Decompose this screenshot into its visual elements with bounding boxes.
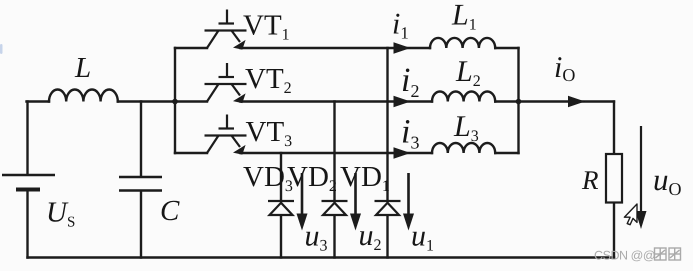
wire output horizontal (519, 100, 615, 102)
wire from L to VT2 lead (118, 100, 207, 102)
wire phase1 output (241, 47, 431, 49)
wire VD3 branch upper (280, 153, 282, 201)
wire right bus vertical (517, 48, 519, 153)
wire bottom bus (28, 256, 615, 258)
wire VT3 left lead (175, 152, 207, 154)
wire VT1 left lead (175, 47, 207, 49)
current arrow i1 (394, 42, 411, 54)
svg-text:R: R (581, 165, 599, 195)
wire VD2 branch lower (333, 215, 335, 258)
voltage arrow u1 (403, 173, 414, 231)
wire L3 to right bus (495, 152, 518, 154)
resistor R (606, 154, 622, 203)
diode VD3 (268, 201, 294, 215)
svg-text:CSDN @@: CSDN @@ (594, 249, 655, 263)
svg-text:C: C (160, 195, 180, 227)
diode VD1 (375, 201, 401, 215)
wire VD1 branch lower (386, 215, 388, 258)
wire down to resistor R (613, 102, 615, 155)
inductor L1 (430, 38, 495, 48)
battery source Us (2, 175, 55, 190)
capacitor C (119, 177, 162, 191)
current arrow i3 (394, 147, 411, 159)
watermark CJK glyph 迷 (655, 248, 667, 260)
wire VD2 branch upper (333, 102, 335, 202)
voltage arrow u3 (297, 173, 308, 231)
wire phase2 output (241, 100, 433, 102)
wire top-left horizontal to inductor L (27, 100, 50, 102)
voltage arrow uO (636, 126, 647, 229)
wire left vertical battery top (26, 102, 28, 175)
wire L2 to right bus (495, 100, 518, 102)
wire L1 to right bus (495, 47, 518, 49)
wire VD1 branch upper (386, 48, 388, 201)
inductor L2 (432, 91, 495, 101)
wire capacitor bottom branch (140, 192, 142, 258)
transistor VT2 (205, 63, 247, 103)
diode VD2 (322, 201, 348, 215)
transistor VT1 (205, 10, 247, 50)
wire phase3 output (241, 152, 433, 154)
voltage arrow u2 (350, 173, 361, 231)
inductor L3 (432, 143, 495, 153)
wire VD3 branch lower (280, 215, 282, 258)
mouse cursor (624, 204, 637, 225)
wire resistor to bottom bus (613, 203, 615, 258)
watermark CSDN (594, 248, 681, 263)
svg-text:L: L (74, 52, 91, 84)
wire capacitor top branch (140, 102, 142, 177)
node junction dot left bus (172, 99, 178, 105)
artifact blue mark left edge (0, 44, 3, 54)
node junction dot right bus (516, 99, 522, 105)
wire left bus vertical (174, 48, 176, 153)
current arrow iO (568, 96, 585, 108)
wire battery bottom to bottom bus (26, 191, 28, 258)
inductor L (49, 90, 118, 102)
current arrow i2 (394, 96, 411, 108)
watermark CJK glyph 糊 (669, 248, 681, 260)
transistor VT3 (205, 115, 247, 155)
